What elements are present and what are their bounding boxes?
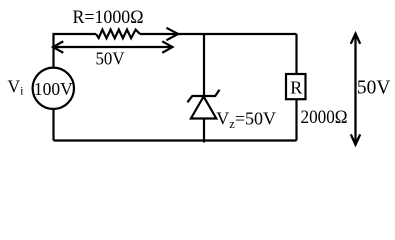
wire load branch lower	[295, 99, 297, 141]
wire left-bottom segment from source to bottom rail	[52, 109, 54, 140]
svg-text:50V: 50V	[96, 48, 125, 68]
svg-text:50V: 50V	[357, 78, 391, 99]
svg-text:R=1000Ω: R=1000Ω	[73, 7, 144, 28]
wire top-left segment from source to resistor	[54, 34, 97, 67]
wire zener branch upper	[203, 34, 205, 96]
svg-text:2000Ω: 2000Ω	[301, 107, 348, 128]
measure arrow 50V across resistor (double-headed)	[53, 41, 173, 53]
zener diode Vz triangle (anode, pointing up)	[191, 97, 216, 119]
svg-text:Vz=50V: Vz=50V	[216, 108, 276, 131]
svg-text:100V: 100V	[34, 79, 73, 99]
svg-text:R: R	[290, 77, 302, 97]
wire load branch upper	[295, 34, 297, 74]
resistor R load box	[286, 74, 306, 99]
wire zener branch lower	[203, 119, 205, 143]
zener diode Vz cathode bar with bent ends	[187, 90, 219, 103]
wire top-right segment from resistor to load corner	[140, 33, 297, 35]
current direction arrowhead on top wire	[166, 28, 178, 40]
measure arrow 50V output (vertical double-headed)	[351, 34, 360, 145]
svg-text:Vi: Vi	[8, 77, 25, 98]
voltage source Vi circle	[33, 68, 74, 109]
resistor R=1000 zigzag	[96, 30, 140, 39]
wire bottom rail	[54, 139, 297, 141]
